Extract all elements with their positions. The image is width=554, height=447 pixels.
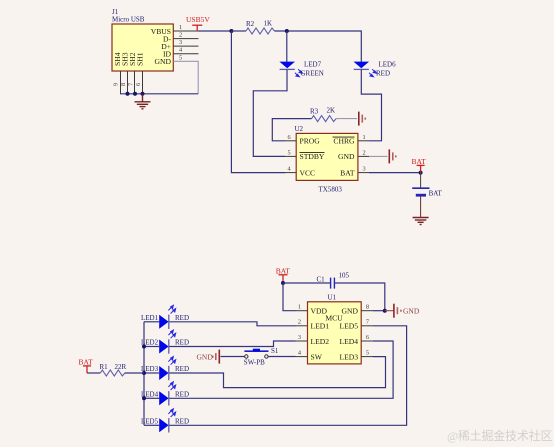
svg-text:RED: RED	[175, 314, 189, 322]
svg-text:VCC: VCC	[300, 168, 316, 177]
battery BT BAT	[412, 173, 442, 217]
svg-text:3: 3	[298, 334, 301, 341]
pin 8 stub U1	[361, 304, 373, 311]
node BAT junction bottom	[281, 281, 285, 285]
svg-text:RED: RED	[175, 339, 189, 347]
wire C1 to GND corner	[334, 283, 384, 311]
wire VCC feed	[231, 31, 285, 173]
wire LED7 to STDBY	[253, 70, 287, 157]
resistor R2	[246, 20, 275, 35]
wire GND pin8	[373, 310, 385, 312]
svg-text:RED: RED	[175, 391, 189, 399]
wire VBUS to junction	[199, 30, 232, 32]
svg-text:BAT: BAT	[412, 157, 427, 166]
wire junction to GND symbol	[385, 310, 394, 312]
svg-text:U1: U1	[328, 294, 337, 302]
svg-text:U2: U2	[295, 125, 304, 133]
pin STDBY name	[300, 152, 325, 161]
svg-text:RED: RED	[376, 70, 390, 78]
svg-text:SW: SW	[311, 352, 323, 361]
svg-text:TX5803: TX5803	[319, 186, 343, 194]
wire PROG to R3	[272, 119, 311, 141]
power port BAT top	[412, 157, 427, 173]
svg-text:LED3: LED3	[339, 352, 358, 361]
connector J1 designator	[112, 8, 145, 24]
pin 9 stub	[113, 71, 121, 94]
svg-text:CHRG: CHRG	[333, 137, 355, 146]
wire bus to LED2	[144, 346, 159, 348]
wire junction to R2	[231, 30, 246, 32]
ground GND right of U1	[394, 304, 401, 318]
wire switch to GND	[221, 356, 245, 358]
node BAT junction	[419, 171, 423, 175]
switch S1	[244, 347, 279, 366]
pin 4 stub	[173, 47, 198, 54]
wire GND pin2 U2	[369, 155, 388, 157]
svg-text:RED: RED	[175, 418, 189, 426]
wire shield bottom	[120, 93, 198, 95]
svg-text:7: 7	[128, 83, 135, 86]
svg-text:R2: R2	[246, 20, 255, 28]
svg-text:SW-PB: SW-PB	[244, 358, 265, 366]
ground right of R3	[359, 112, 366, 126]
junction bus LED2	[142, 345, 146, 349]
node LED7 junction	[285, 29, 289, 33]
pin 6 stub U2	[285, 134, 296, 141]
pin 2 stub U1	[296, 319, 308, 326]
junction shield 8	[126, 92, 130, 96]
pin 5 stub	[179, 54, 182, 61]
junction bus LED4	[142, 396, 146, 400]
ground under battery	[413, 218, 429, 225]
wire GND pin5 route	[173, 61, 198, 94]
pin 5 stub U1	[361, 349, 373, 356]
svg-text:VDD: VDD	[311, 307, 328, 316]
svg-text:7: 7	[366, 319, 369, 326]
svg-text:R1: R1	[100, 363, 109, 371]
pin 1 stub U2	[358, 134, 369, 141]
svg-text:5: 5	[179, 54, 182, 61]
svg-text:6: 6	[135, 83, 142, 86]
power port BAT bottom section	[276, 267, 291, 284]
svg-text:LED4: LED4	[339, 337, 358, 346]
pin 2 stub	[173, 32, 198, 39]
svg-text:2: 2	[298, 319, 301, 326]
pin 3 stub	[173, 39, 198, 46]
svg-text:2: 2	[179, 32, 182, 39]
svg-text:3: 3	[363, 166, 366, 173]
wire bus to LED3	[144, 372, 159, 374]
svg-text:3: 3	[179, 39, 182, 46]
svg-text:LED5: LED5	[339, 322, 358, 331]
svg-text:RED: RED	[175, 365, 189, 373]
svg-text:LED6: LED6	[379, 61, 397, 69]
wire bus to LED1	[144, 321, 159, 323]
pin 3 stub U2	[358, 166, 369, 173]
svg-text:6: 6	[366, 334, 369, 341]
wire BAT to C1	[283, 282, 330, 284]
pin 6 stub U1	[361, 334, 373, 341]
pin 6 stub	[135, 71, 143, 94]
svg-text:6: 6	[288, 134, 291, 141]
power port BAT at R1	[79, 357, 94, 373]
node VCC junction	[229, 29, 233, 33]
LED LED6	[354, 61, 397, 78]
svg-text:R3: R3	[310, 108, 319, 116]
wire R3 to ground	[336, 118, 357, 120]
pin 5 stub U2	[285, 149, 296, 156]
svg-text:8: 8	[120, 83, 127, 86]
junction bus LED3	[142, 371, 146, 375]
svg-text:8: 8	[366, 304, 369, 311]
svg-text:9: 9	[113, 83, 120, 86]
LED LED3	[141, 357, 189, 381]
wire pin6 to LED4	[169, 341, 393, 398]
svg-text:LED1: LED1	[311, 322, 330, 331]
svg-text:105: 105	[339, 272, 350, 280]
pin CHRG name	[333, 137, 356, 146]
svg-text:22R: 22R	[115, 363, 127, 371]
wire bus to LED4	[144, 397, 159, 399]
wire pin4 to switch	[268, 356, 295, 358]
wire pin7 to LED5	[169, 326, 407, 426]
svg-text:SH1: SH1	[136, 52, 145, 66]
pin 7 stub	[128, 71, 135, 94]
svg-text:PROG: PROG	[300, 137, 321, 146]
ground GND left of switch	[213, 350, 220, 364]
pin 4 stub U1	[296, 349, 308, 356]
svg-text:1: 1	[298, 304, 301, 311]
wire BAT pin3	[369, 172, 421, 174]
pin 1 stub	[173, 24, 198, 31]
junction shield 6	[141, 92, 145, 96]
wire BAT to VDD	[283, 283, 296, 311]
svg-text:BAT: BAT	[429, 190, 443, 198]
svg-text:GREEN: GREEN	[301, 70, 324, 78]
wire bus to LED5	[144, 424, 159, 426]
svg-text:1K: 1K	[264, 20, 273, 28]
ground right of U2 pin2	[389, 149, 396, 163]
resistor R1	[87, 363, 144, 376]
capacitor C1	[317, 272, 350, 289]
svg-text:C1: C1	[317, 276, 326, 284]
svg-text:LED1: LED1	[141, 314, 159, 322]
svg-text:BAT: BAT	[79, 357, 94, 366]
pin 2 stub U2	[358, 149, 369, 156]
svg-text:2: 2	[363, 149, 366, 156]
svg-text:Micro USB: Micro USB	[112, 16, 145, 24]
svg-text:BAT: BAT	[340, 168, 355, 177]
LED LED2	[141, 330, 189, 354]
svg-text:5: 5	[366, 349, 369, 356]
pin 1 stub U1	[296, 304, 308, 311]
wire pin5 to LED3	[169, 357, 386, 388]
svg-text:GND: GND	[338, 152, 355, 161]
junction shield 7	[133, 92, 137, 96]
svg-text:S1: S1	[271, 347, 279, 355]
chip U1 body	[308, 302, 362, 364]
LED LED4	[141, 382, 189, 406]
svg-text:LED2: LED2	[311, 337, 330, 346]
svg-text:STDBY: STDBY	[300, 152, 325, 161]
chip U2 body	[296, 133, 358, 180]
pin 3 stub U1	[296, 334, 308, 341]
svg-text:@稀土掘金技术社区: @稀土掘金技术社区	[447, 428, 552, 443]
pin 4 stub U2	[285, 166, 296, 173]
wire pin3 to LED2	[169, 341, 296, 347]
svg-text:GND: GND	[342, 307, 359, 316]
LED LED1	[141, 305, 189, 329]
wire LED bus	[143, 322, 145, 426]
pin 8 stub	[120, 71, 128, 94]
svg-text:GND: GND	[155, 57, 172, 66]
resistor R3	[310, 107, 336, 122]
wire pin2 to LED1	[169, 322, 296, 326]
svg-text:GND: GND	[403, 306, 420, 315]
wire junction to LED7	[286, 31, 288, 62]
watermark	[447, 428, 552, 443]
svg-text:1: 1	[179, 24, 182, 31]
node GND junction	[383, 309, 387, 313]
LED LED5	[141, 409, 189, 433]
svg-text:GND: GND	[197, 352, 214, 361]
LED LED7	[279, 61, 323, 78]
wire LED6 to CHRG	[361, 70, 381, 141]
power port USB5V	[186, 15, 210, 31]
svg-text:1: 1	[363, 134, 366, 141]
pin 7 stub U1	[361, 319, 373, 326]
svg-text:LED7: LED7	[304, 61, 322, 69]
svg-text:USB5V: USB5V	[186, 15, 210, 24]
ground under J1	[135, 94, 151, 109]
svg-text:2K: 2K	[327, 107, 336, 115]
svg-text:5: 5	[288, 149, 291, 156]
wire R2 to LED6 corner	[275, 31, 362, 62]
connector J1 body	[112, 24, 173, 71]
